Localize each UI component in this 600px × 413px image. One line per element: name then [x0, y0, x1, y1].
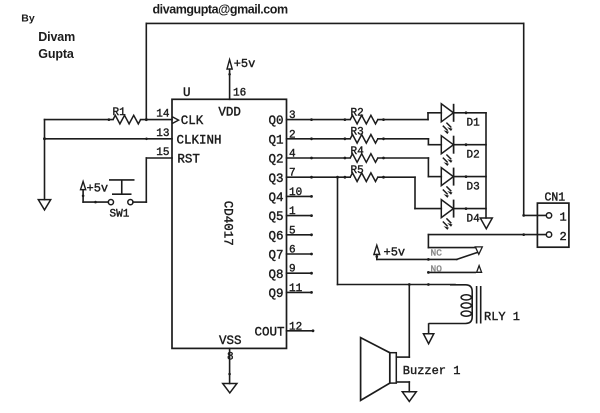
svg-text:VSS: VSS	[219, 334, 242, 348]
svg-text:4: 4	[289, 149, 296, 161]
svg-text:Q6: Q6	[268, 229, 283, 243]
svg-text:CLK: CLK	[181, 114, 204, 128]
svg-text:Q5: Q5	[268, 210, 283, 224]
svg-text:divamgupta@gmail.com: divamgupta@gmail.com	[153, 2, 288, 16]
svg-text:R1: R1	[113, 107, 127, 119]
svg-text:5: 5	[289, 225, 296, 237]
svg-text:14: 14	[156, 109, 170, 121]
svg-text:+5v: +5v	[384, 246, 406, 260]
svg-text:SW1: SW1	[110, 209, 130, 221]
svg-text:CD4017: CD4017	[220, 201, 234, 246]
svg-text:Q7: Q7	[268, 249, 283, 263]
svg-text:8: 8	[227, 352, 234, 364]
svg-text:Divam: Divam	[38, 30, 75, 44]
svg-text:9: 9	[289, 264, 296, 276]
svg-text:7: 7	[289, 168, 296, 180]
svg-text:NC: NC	[431, 248, 443, 259]
svg-text:U: U	[183, 86, 191, 100]
svg-text:Q1: Q1	[268, 133, 283, 147]
svg-text:Q2: Q2	[268, 153, 283, 167]
svg-text:13: 13	[156, 128, 169, 140]
svg-text:11: 11	[289, 283, 303, 295]
svg-text:Q4: Q4	[268, 191, 283, 205]
svg-text:12: 12	[289, 321, 302, 333]
svg-text:+5v: +5v	[234, 57, 256, 71]
svg-text:VDD: VDD	[218, 106, 241, 120]
svg-text:Gupta: Gupta	[38, 47, 75, 61]
svg-text:2: 2	[560, 230, 567, 244]
svg-text:Q9: Q9	[268, 287, 283, 301]
svg-text:15: 15	[156, 147, 169, 159]
svg-text:1: 1	[560, 211, 567, 225]
svg-text:RLY 1: RLY 1	[484, 310, 520, 324]
svg-text:R5: R5	[351, 165, 364, 177]
svg-text:R3: R3	[351, 127, 364, 139]
svg-text:3: 3	[289, 110, 296, 122]
svg-text:D1: D1	[467, 118, 481, 130]
svg-text:R4: R4	[351, 146, 365, 158]
svg-text:Buzzer 1: Buzzer 1	[403, 364, 461, 378]
svg-text:+5v: +5v	[87, 182, 109, 196]
svg-text:D3: D3	[467, 181, 480, 193]
svg-text:1: 1	[289, 206, 296, 218]
svg-text:NO: NO	[431, 263, 443, 274]
svg-text:Q8: Q8	[268, 268, 283, 282]
svg-text:CN1: CN1	[545, 192, 566, 205]
svg-text:RST: RST	[177, 153, 200, 167]
svg-text:COUT: COUT	[254, 325, 285, 339]
svg-text:By: By	[21, 13, 35, 25]
svg-text:Q0: Q0	[268, 114, 283, 128]
svg-text:R2: R2	[351, 107, 364, 119]
svg-text:10: 10	[289, 187, 302, 199]
svg-text:6: 6	[289, 245, 296, 257]
svg-text:2: 2	[289, 129, 296, 141]
svg-text:Q3: Q3	[268, 172, 283, 186]
svg-text:D2: D2	[467, 149, 480, 161]
svg-text:D4: D4	[467, 213, 481, 225]
svg-text:16: 16	[233, 88, 246, 100]
svg-text:CLKINH: CLKINH	[177, 133, 222, 147]
